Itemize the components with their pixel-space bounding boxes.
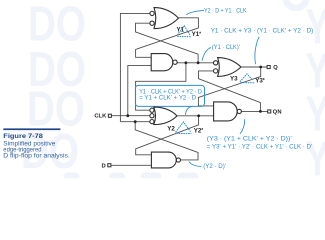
- svg-text:(Y3 · (Y1 + CLK' + Y2 · D))': (Y3 · (Y1 + CLK' + Y2 · D))': [207, 136, 292, 143]
- input pad D: [102, 163, 111, 169]
- node Y2 label with next-state dotted arrow: [167, 122, 203, 135]
- wire (Y1 CLK)' branch up to U1 bottom input: [136, 23, 199, 63]
- svg-text:Y: Y: [306, 133, 325, 178]
- svg-text:(Y1 · CLK)': (Y1 · CLK)': [212, 44, 240, 51]
- wire Q from U3 output to Q pad: [241, 66, 267, 68]
- svg-text:Y2: Y2: [167, 126, 175, 133]
- wire D from pad to U5 bottom input: [112, 164, 152, 166]
- gate U5 NAND: [151, 152, 180, 168]
- watermark background: [21, 0, 325, 187]
- svg-text:D flip-flop for analysis.: D flip-flop for analysis.: [3, 153, 70, 160]
- figure caption: [3, 128, 70, 159]
- svg-text:Y3*: Y3*: [255, 77, 265, 84]
- wire Y1 from U1 output to U2 top input: [136, 18, 199, 58]
- wire CLK from pad to U4 middle input: [112, 115, 150, 117]
- svg-text:Y2 · D + Y1 · CLK: Y2 · D + Y1 · CLK: [204, 8, 247, 15]
- net label (Y1 CLK)': [202, 44, 240, 61]
- svg-text:= Y1 + CLK' + Y2 · D: = Y1 + CLK' + Y2 · D: [139, 95, 196, 102]
- output pad Q: [267, 65, 278, 71]
- wire QN feedback to U3 bottom input: [199, 71, 261, 112]
- node Y1 label with next-state dotted arrow: [177, 26, 202, 38]
- output pad QN: [268, 110, 282, 116]
- svg-text:Figure 7-78: Figure 7-78: [3, 133, 43, 140]
- equation box Y2 excitation: [135, 85, 204, 106]
- svg-text:(Y2 · D)': (Y2 · D)': [203, 163, 226, 170]
- node Y3 label with next-state dotted arrow: [230, 74, 265, 85]
- wire Y2 from U4 output to U6 bottom input: [177, 115, 214, 117]
- net label Q equation: [211, 27, 314, 64]
- wire QN from U6 output to QN pad: [241, 110, 267, 112]
- gate U4 3-input NAND (DeMorgan OR form): [150, 107, 177, 125]
- gate U3 NAND (DeMorgan OR form) Q output: [214, 58, 242, 77]
- wire (Y2 D)' horizontal into U4 bottom bubble: [120, 121, 149, 123]
- wire (Y2 D)' from U5 output up to U1 top input and U3b bottom input: [135, 122, 198, 160]
- svg-text:Q: Q: [273, 65, 278, 71]
- svg-text:D: D: [102, 163, 106, 169]
- svg-text:Y2*: Y2*: [194, 128, 204, 135]
- wire (Y1 CLK)' branch down to U4 top input: [136, 63, 186, 110]
- svg-text:QN: QN: [273, 110, 282, 116]
- svg-text:Y3: Y3: [230, 75, 238, 82]
- net label QN equation: [207, 119, 312, 150]
- svg-text:CLK: CLK: [94, 114, 107, 120]
- gate U6 NAND QN output: [214, 102, 242, 121]
- svg-text:= Y3' + Y1' · Y2' · CLK + Y1': = Y3' + Y1' · Y2' · CLK + Y1' · CLK · D': [207, 143, 312, 150]
- svg-text:Y1*: Y1*: [192, 31, 202, 38]
- net label Y1 excitation equation: [186, 8, 247, 15]
- wire (Y1 CLK)' from U2 output to U3 top input: [177, 62, 213, 64]
- wire Q feedback to U6 top input: [198, 67, 260, 106]
- leader from equation box to Y2 wire: [185, 106, 192, 115]
- gate U1 NAND (DeMorgan OR form): [150, 8, 179, 29]
- net label (Y2 D)': [189, 162, 226, 171]
- wire CLK branch up to U2 bottom input: [128, 66, 151, 116]
- input pad CLK: [94, 114, 111, 120]
- gate U2 NAND: [151, 54, 177, 71]
- wire Y2 branch down to U5 top input: [136, 116, 199, 155]
- svg-text:Y1 · CLK + Y3 · (Y1 · CLK' + Y: Y1 · CLK + Y3 · (Y1 · CLK' + Y2 · D): [211, 27, 314, 34]
- wire (Y2 D)' long vertical feedback to U1 top input: [120, 13, 149, 121]
- junction dots: [126, 61, 262, 123]
